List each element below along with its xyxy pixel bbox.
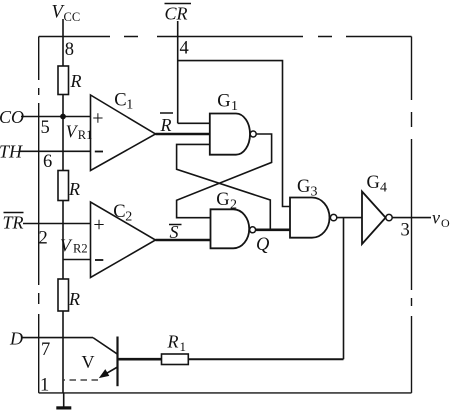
wire G1 output cross-couple to G2	[177, 134, 272, 218]
label S-bar	[169, 222, 182, 242]
svg-text:2: 2	[125, 210, 132, 225]
svg-text:1: 1	[40, 376, 49, 396]
NAND gate G3	[290, 198, 330, 238]
transistor V emitter arrowhead	[99, 369, 110, 378]
ground stub pin 1	[63, 393, 65, 407]
label G4	[367, 173, 388, 196]
wire G3 output to G4	[337, 217, 362, 219]
svg-text:7: 7	[41, 340, 50, 360]
svg-text:1: 1	[126, 98, 133, 113]
svg-text:G: G	[367, 173, 380, 193]
svg-text:R2: R2	[73, 242, 88, 256]
resistor R1	[162, 354, 189, 365]
bubble G3	[330, 214, 336, 220]
wire VR2 to C2 inverting input	[63, 259, 91, 261]
chip boundary bottom	[39, 392, 412, 394]
wire Q output to G3	[256, 228, 290, 231]
svg-text:CC: CC	[64, 10, 81, 24]
svg-text:+: +	[92, 108, 103, 130]
label VR2	[60, 236, 88, 256]
label VCC	[52, 3, 81, 25]
svg-text:C: C	[113, 202, 125, 222]
bubble G1	[250, 131, 256, 137]
label CR-bar	[165, 4, 192, 24]
svg-text:1: 1	[180, 339, 187, 354]
resistor R (middle)	[58, 171, 69, 201]
node VR1 junction dot	[60, 114, 66, 120]
svg-text:6: 6	[43, 152, 52, 172]
label vO	[432, 208, 450, 231]
svg-text:TH: TH	[0, 142, 23, 162]
label R-bar	[160, 113, 174, 135]
wire TH pin 6	[20, 150, 91, 152]
wire VCC lead-in pin 8	[62, 19, 64, 66]
wire branch to transistor base	[343, 218, 345, 360]
svg-text:3: 3	[311, 184, 318, 199]
resistor R (top)	[58, 66, 69, 95]
label R1	[167, 332, 187, 355]
wire emitter dashed to ground	[63, 379, 98, 381]
wire CR branch to G3	[178, 61, 290, 207]
C1 minus input sign	[95, 151, 103, 153]
svg-text:O: O	[441, 216, 450, 230]
transistor V emitter lead	[101, 367, 118, 377]
wire CR lead-in pin 4	[177, 21, 179, 123]
bubble G2	[250, 227, 256, 233]
chip boundary left (dash-dot)	[38, 37, 40, 393]
ground symbol	[56, 406, 71, 409]
chip boundary top (dash-dot)	[39, 36, 412, 38]
transistor V base bar	[116, 337, 118, 387]
svg-text:3: 3	[401, 221, 410, 241]
op-amp comparator C1	[91, 95, 156, 171]
svg-text:v: v	[432, 208, 440, 228]
svg-text:R: R	[160, 115, 172, 135]
wire D pin 7	[22, 337, 93, 339]
op-amp comparator C2	[91, 202, 156, 278]
wire output pin 3	[392, 217, 431, 219]
wire R-bar C1 output	[156, 133, 210, 135]
svg-text:TR: TR	[3, 213, 24, 233]
resistor R (bottom)	[58, 279, 69, 311]
svg-text:4: 4	[380, 180, 387, 195]
svg-text:G: G	[297, 177, 310, 197]
svg-text:5: 5	[41, 118, 50, 138]
label C2	[113, 202, 132, 225]
svg-text:V: V	[82, 352, 95, 372]
wire divider middle section	[62, 201, 64, 280]
label C1	[114, 91, 133, 113]
svg-text:R: R	[68, 179, 80, 199]
chip boundary right (dash-dot)	[411, 37, 413, 393]
svg-text:G: G	[217, 92, 230, 112]
label G1	[217, 92, 238, 115]
C2 minus input sign	[95, 259, 103, 261]
svg-text:8: 8	[65, 40, 74, 60]
wire base line to R1	[118, 358, 162, 361]
svg-text:D: D	[9, 329, 23, 349]
wire G1 top input from CR	[178, 122, 210, 124]
label TR-bar	[3, 213, 24, 233]
label VR1	[66, 122, 93, 143]
wire S-bar C2 output	[156, 239, 211, 241]
wire CO pin 5	[21, 116, 91, 118]
label G3	[297, 177, 318, 200]
svg-text:Q: Q	[256, 235, 270, 255]
svg-text:2: 2	[230, 198, 237, 213]
bubble G4	[386, 214, 392, 220]
svg-text:CR: CR	[165, 4, 188, 24]
svg-text:R: R	[68, 289, 80, 309]
label G2	[216, 190, 237, 213]
wire R1 to branch	[188, 358, 343, 360]
svg-text:R: R	[70, 71, 82, 91]
svg-text:1: 1	[231, 99, 238, 114]
wire divider R to CO node	[62, 95, 64, 171]
svg-text:G: G	[216, 190, 229, 210]
svg-text:4: 4	[180, 39, 189, 59]
inverter G4	[362, 192, 386, 245]
wire TR pin 2	[23, 223, 91, 225]
NAND gate G1	[210, 114, 250, 155]
wire divider to ground rail	[62, 311, 64, 393]
svg-text:CO: CO	[0, 107, 24, 127]
svg-text:2: 2	[39, 229, 48, 249]
svg-text:R: R	[167, 332, 179, 352]
NAND gate G2	[211, 209, 250, 248]
wire G1 bottom input feedback from Q	[177, 144, 271, 229]
svg-text:+: +	[93, 214, 104, 236]
svg-text:C: C	[114, 91, 126, 111]
transistor V collector lead	[93, 338, 118, 355]
svg-text:R1: R1	[78, 128, 93, 142]
